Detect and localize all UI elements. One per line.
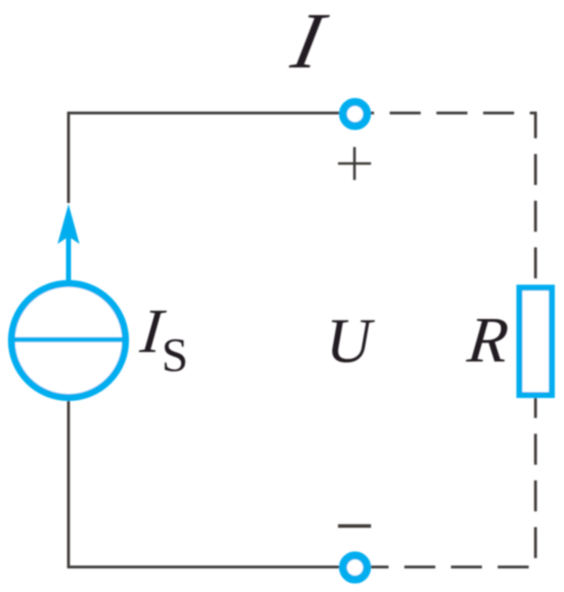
current source IS: horizontal bar (12, 337, 126, 342)
svg-text:I: I (284, 0, 334, 85)
label IS (source) (137, 296, 169, 366)
plus sign (338, 147, 371, 180)
svg-text:S: S (162, 329, 189, 382)
label R (resistor) (463, 305, 511, 377)
wire dashed: resistor bottom to bottom node (367, 398, 536, 567)
svg-text:U: U (326, 306, 375, 376)
wire top-left: left vertical + top horizontal to node (69, 113, 345, 203)
current source IS: circle (12, 284, 126, 398)
current source IS: arrow head (58, 204, 80, 244)
node terminal top (+) (343, 102, 367, 126)
node terminal bottom (-) (343, 556, 367, 580)
label I (current) (284, 0, 334, 85)
minus sign (338, 524, 371, 528)
current source IS: arrow shaft (66, 236, 71, 282)
svg-text:R: R (463, 305, 511, 377)
wire dashed: top node to resistor top (370, 113, 536, 285)
wire bottom-left: from source bottom down and right to node (69, 399, 345, 567)
resistor R: rectangle (519, 288, 551, 395)
